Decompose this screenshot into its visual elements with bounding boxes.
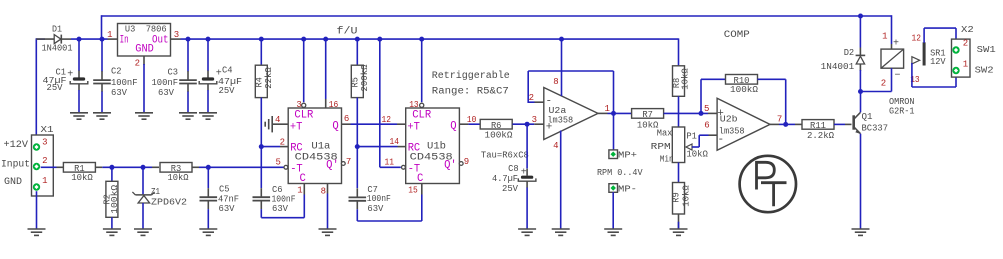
svg-text:+T: +T [407,121,420,133]
wire R4 to U1a RC [261,146,280,148]
resistor R7 [632,109,664,131]
pin X1-3 [33,143,40,150]
wire U2a pin8 to rail [553,37,564,96]
wire Q1 collector [860,92,862,113]
svg-text:U3: U3 [125,23,135,34]
svg-text:2: 2 [963,38,968,48]
svg-text:2: 2 [135,59,140,69]
diode D1 [36,24,107,54]
svg-text:12: 12 [382,115,392,125]
svg-text:25V: 25V [502,183,518,194]
svg-text:MP-: MP- [618,183,637,194]
wire R6 to U2a [513,123,535,125]
wire input row R3-U1a [192,166,199,168]
ground C3 [179,112,197,114]
svg-text:25V: 25V [219,85,235,96]
pin U1a-6 Q stub [342,114,351,124]
ground C5 [199,228,217,230]
svg-text:1N4001: 1N4001 [42,42,73,53]
svg-text:200kΩ: 200kΩ [359,64,370,91]
capacitor C4 [199,37,242,113]
wire U1a CLR to rail [303,39,305,102]
ground Q1 [852,228,870,230]
ground U2a [552,228,570,230]
wire U2b out to R11 [779,123,795,125]
svg-text:D2: D2 [844,47,855,58]
svg-text:Retriggerable: Retriggerable [432,70,510,82]
svg-text:−: − [895,71,901,82]
resistor R5 [350,37,370,146]
wire R5 to U1b RC [357,146,397,148]
svg-text:X1: X1 [41,124,55,135]
resistor R9 [671,183,692,215]
svg-text:COMP: COMP [724,30,750,41]
wire +12V top rail [102,15,861,17]
svg-text:U2b: U2b [720,113,738,124]
svg-text:+T: +T [290,121,303,133]
resistor R3 [160,163,192,184]
svg-text:U1b: U1b [427,140,446,152]
svg-text:10kΩ: 10kΩ [71,172,93,183]
svg-text:+: + [67,70,73,81]
svg-text:2: 2 [881,78,886,88]
wire to MP+ [613,113,615,149]
pin U2b-7 output [770,115,782,125]
node junction pin5 [699,111,704,116]
svg-text:lm358: lm358 [719,126,745,137]
capacitor C3 [152,37,197,113]
resistor R11 [802,120,834,141]
svg-text:100kΩ: 100kΩ [109,184,120,213]
svg-text:1: 1 [107,30,112,40]
svg-text:f/U: f/U [337,26,358,38]
diode D2 1N4001 [821,16,866,92]
svg-text:10kΩ: 10kΩ [686,148,708,159]
potentiometer P1 [672,127,717,163]
ground C1 [70,112,88,114]
pin U1a-3 CLR bubble [296,100,305,110]
wire top rail to relay coil [861,15,892,17]
pin U1a-7 Q' bubble [341,157,351,167]
resistor R6 [480,119,513,140]
pin X2-2 [952,46,959,53]
wire MP- to ground [612,192,614,229]
wire input row R1-R3 [95,166,102,168]
capacitor C1 [43,39,88,113]
resistor R8 [671,38,691,127]
logo PT [740,156,796,212]
svg-text:CLR: CLR [412,110,432,122]
svg-text:lm358: lm358 [547,115,573,126]
svg-text:Q: Q [450,120,456,132]
svg-text:RPM: RPM [651,141,671,152]
svg-text:Out: Out [152,34,169,46]
pin U2a-2 stub [529,93,544,103]
wire R11 to Q1 [834,123,845,125]
svg-text:Tau=R6xC8: Tau=R6xC8 [481,149,529,160]
svg-text:1: 1 [963,60,968,70]
svg-text:6: 6 [704,120,709,130]
wire U3 GND to ground [143,64,145,113]
svg-text:14: 14 [390,137,400,147]
svg-text:22kΩ: 22kΩ [263,67,274,89]
node junction R5/RC [355,144,360,149]
svg-text:1: 1 [42,176,47,186]
ground R9 [670,228,688,230]
svg-text:63V: 63V [367,203,383,214]
wire input row X1-R1 [41,166,57,168]
node junction collector [858,89,863,94]
connector X1 [1,124,54,196]
svg-text:13: 13 [409,100,419,110]
svg-text:GND: GND [4,177,22,188]
svg-text:6: 6 [344,114,349,124]
svg-text:C: C [300,173,306,185]
svg-text:7806: 7806 [146,23,167,34]
svg-text:63V: 63V [219,203,235,214]
svg-text:Max: Max [657,127,673,138]
svg-text:5: 5 [704,104,709,114]
svg-text:25V: 25V [47,82,63,93]
pin MP+ [609,149,637,160]
capacitor C5 [200,167,240,229]
svg-text:1: 1 [605,104,610,114]
wire U1a Q to U1b +T [351,123,398,125]
svg-text:11: 11 [385,157,395,167]
svg-text:C2: C2 [111,66,122,77]
svg-text:9: 9 [464,157,469,167]
svg-text:10kΩ: 10kΩ [168,172,189,183]
pin U1b-15 C stub [408,184,422,196]
node junction rail/D2 [858,14,863,19]
svg-text:100kΩ: 100kΩ [730,84,758,95]
monostable U1b CD4538 [406,108,460,185]
node junction C1 [77,37,82,42]
svg-text:Input: Input [1,159,30,170]
connector X2 [952,24,997,77]
svg-text:63V: 63V [111,87,127,98]
svg-text:7: 7 [777,115,782,125]
svg-text:63V: 63V [158,87,174,98]
wire Q1 emitter to ground [860,134,862,229]
wire R4 to C6 [260,147,262,189]
resistor R10 [726,75,759,96]
svg-text:1: 1 [882,32,887,42]
pin U1b-10 Q stub [459,115,476,125]
svg-text:CD4538: CD4538 [410,152,453,164]
wire R7 to U2b [664,112,708,114]
transistor Q1 BC337 [854,111,888,134]
node junction C2 [100,37,105,42]
svg-text:Z1: Z1 [151,186,160,197]
svg-text:GND: GND [135,44,154,56]
svg-text:SW2: SW2 [975,64,994,75]
zener Z1 [132,167,187,229]
wire X1 +12V riser [35,38,37,143]
svg-text:Q: Q [332,120,338,132]
capacitor C6 [253,184,305,218]
svg-text:3: 3 [532,115,537,125]
pin U1b-9 Q' bubble [459,157,469,167]
svg-text:+12V: +12V [4,140,29,151]
ground Z1 [134,228,152,230]
pin U2a-1 output [598,104,610,114]
ground R2 [103,228,121,230]
wire R10 feedback right [758,78,786,80]
svg-text:CD4538: CD4538 [295,152,338,164]
svg-text:10kΩ: 10kΩ [680,185,691,207]
svg-text:4: 4 [275,115,280,125]
node junction Z1 [141,165,146,170]
wire U1a pin16 to rail [325,39,327,99]
pin U1a-5 -T bubble [275,157,287,169]
svg-text:In: In [120,34,129,46]
relay SR1 coil [861,32,904,92]
svg-text:7: 7 [346,157,351,167]
resistor R4 [254,37,274,146]
node junction R2 [109,165,114,170]
wire contact-13 to X2 SW2 [911,63,913,87]
op-amp U2a lm358 [544,88,598,140]
svg-text:4: 4 [553,141,558,151]
svg-text:2: 2 [280,137,285,147]
resistor R2 [102,167,120,229]
ground U3 [135,112,153,114]
node junction R4/RC [259,144,264,149]
node junction C8 [525,122,530,127]
svg-text:16: 16 [329,100,339,110]
pin X1-2 [33,163,40,170]
ground symbol U1a +T (rotated) [265,115,288,133]
pin X1-1 [33,183,40,190]
wire U2a feedback [527,71,529,103]
pin U1a-8 stub [321,184,328,197]
pin U1b-11 -T bubble [385,157,406,169]
svg-text:12: 12 [912,33,922,43]
svg-text:10: 10 [467,115,477,125]
wire R5 to C7 [356,147,358,189]
svg-text:1N4001: 1N4001 [821,61,855,72]
pin U1a-1 C stub [297,184,304,196]
svg-text:Min: Min [660,154,674,165]
wire U1b Q to R6 [468,123,480,125]
ground X1 [28,228,46,230]
pin X2-1 [952,67,959,74]
svg-text:12V: 12V [930,56,946,67]
wire rail riser at C2 [101,15,103,39]
capacitor C2 [93,39,137,113]
ground U1a [319,228,337,230]
svg-text:Range: R5&C7: Range: R5&C7 [432,87,509,98]
node junction U2b out [783,122,788,127]
svg-text:3: 3 [296,100,301,110]
svg-text:U1a: U1a [311,140,330,152]
svg-text:ZPD6V2: ZPD6V2 [151,196,187,207]
svg-text:100kΩ: 100kΩ [485,130,513,141]
wire U2a pin4 to ground [553,131,561,230]
svg-text:1: 1 [297,185,302,195]
pin U1b-13 CLR bubble [409,100,424,110]
svg-text:C3: C3 [168,66,179,77]
svg-text:CLR: CLR [294,110,314,122]
monostable U1a CD4538 [288,108,341,185]
pin MP- [609,183,637,194]
svg-text:3: 3 [174,30,179,40]
node junction U2a out [611,111,616,116]
svg-text:X2: X2 [961,24,974,35]
svg-text:+: + [893,38,899,49]
pin U1b-12 +T stub [382,115,406,125]
svg-text:5: 5 [275,157,280,167]
svg-text:MP+: MP+ [618,149,637,160]
svg-text:63V: 63V [272,203,288,214]
wire R9 to ground [678,214,680,229]
svg-text:BC337: BC337 [862,123,889,134]
svg-text:Q1: Q1 [862,111,873,122]
relay SR1 contact [910,33,946,85]
capacitor C7 [349,184,422,221]
svg-text:C: C [417,173,423,185]
svg-text:8: 8 [321,186,326,196]
svg-text:+: + [521,167,527,178]
svg-text:15: 15 [408,185,418,195]
wire U1a pin8 to ground [327,194,329,230]
ground C8 [518,228,536,230]
node junction C5 [206,165,211,170]
svg-text:RPM 0..4V: RPM 0..4V [597,167,643,178]
svg-text:D1: D1 [52,24,62,35]
svg-text:P1: P1 [686,131,697,142]
svg-text:G2R-1: G2R-1 [889,105,915,116]
wire U1b CLR to rail [421,39,423,102]
op-amp U2b lm358 [717,98,770,150]
resistor R1 [63,163,95,184]
svg-text:2: 2 [42,156,47,166]
wire +6V rail [181,38,679,40]
svg-text:SW1: SW1 [977,44,997,55]
svg-text:3: 3 [42,137,47,147]
wire U2a out to R7 [608,112,632,114]
svg-text:8: 8 [553,77,558,87]
svg-text:10kΩ: 10kΩ [680,68,691,90]
ground MP- [604,228,622,230]
svg-text:10kΩ: 10kΩ [637,119,659,130]
ground C4 [199,112,217,114]
wire contact-12 to X2 SW1 [923,28,925,43]
voltage regulator U3 7806 [107,23,180,68]
ground C2 [93,112,111,114]
svg-text:2.2kΩ: 2.2kΩ [807,130,834,141]
svg-text:C4: C4 [222,64,233,75]
wire R10 feedback left [700,79,702,113]
wire P1 to R9 [678,163,680,183]
wire rail to U1b -T [379,39,381,167]
capacitor C8 [492,124,536,229]
wire X1 GND to ground [36,191,38,229]
